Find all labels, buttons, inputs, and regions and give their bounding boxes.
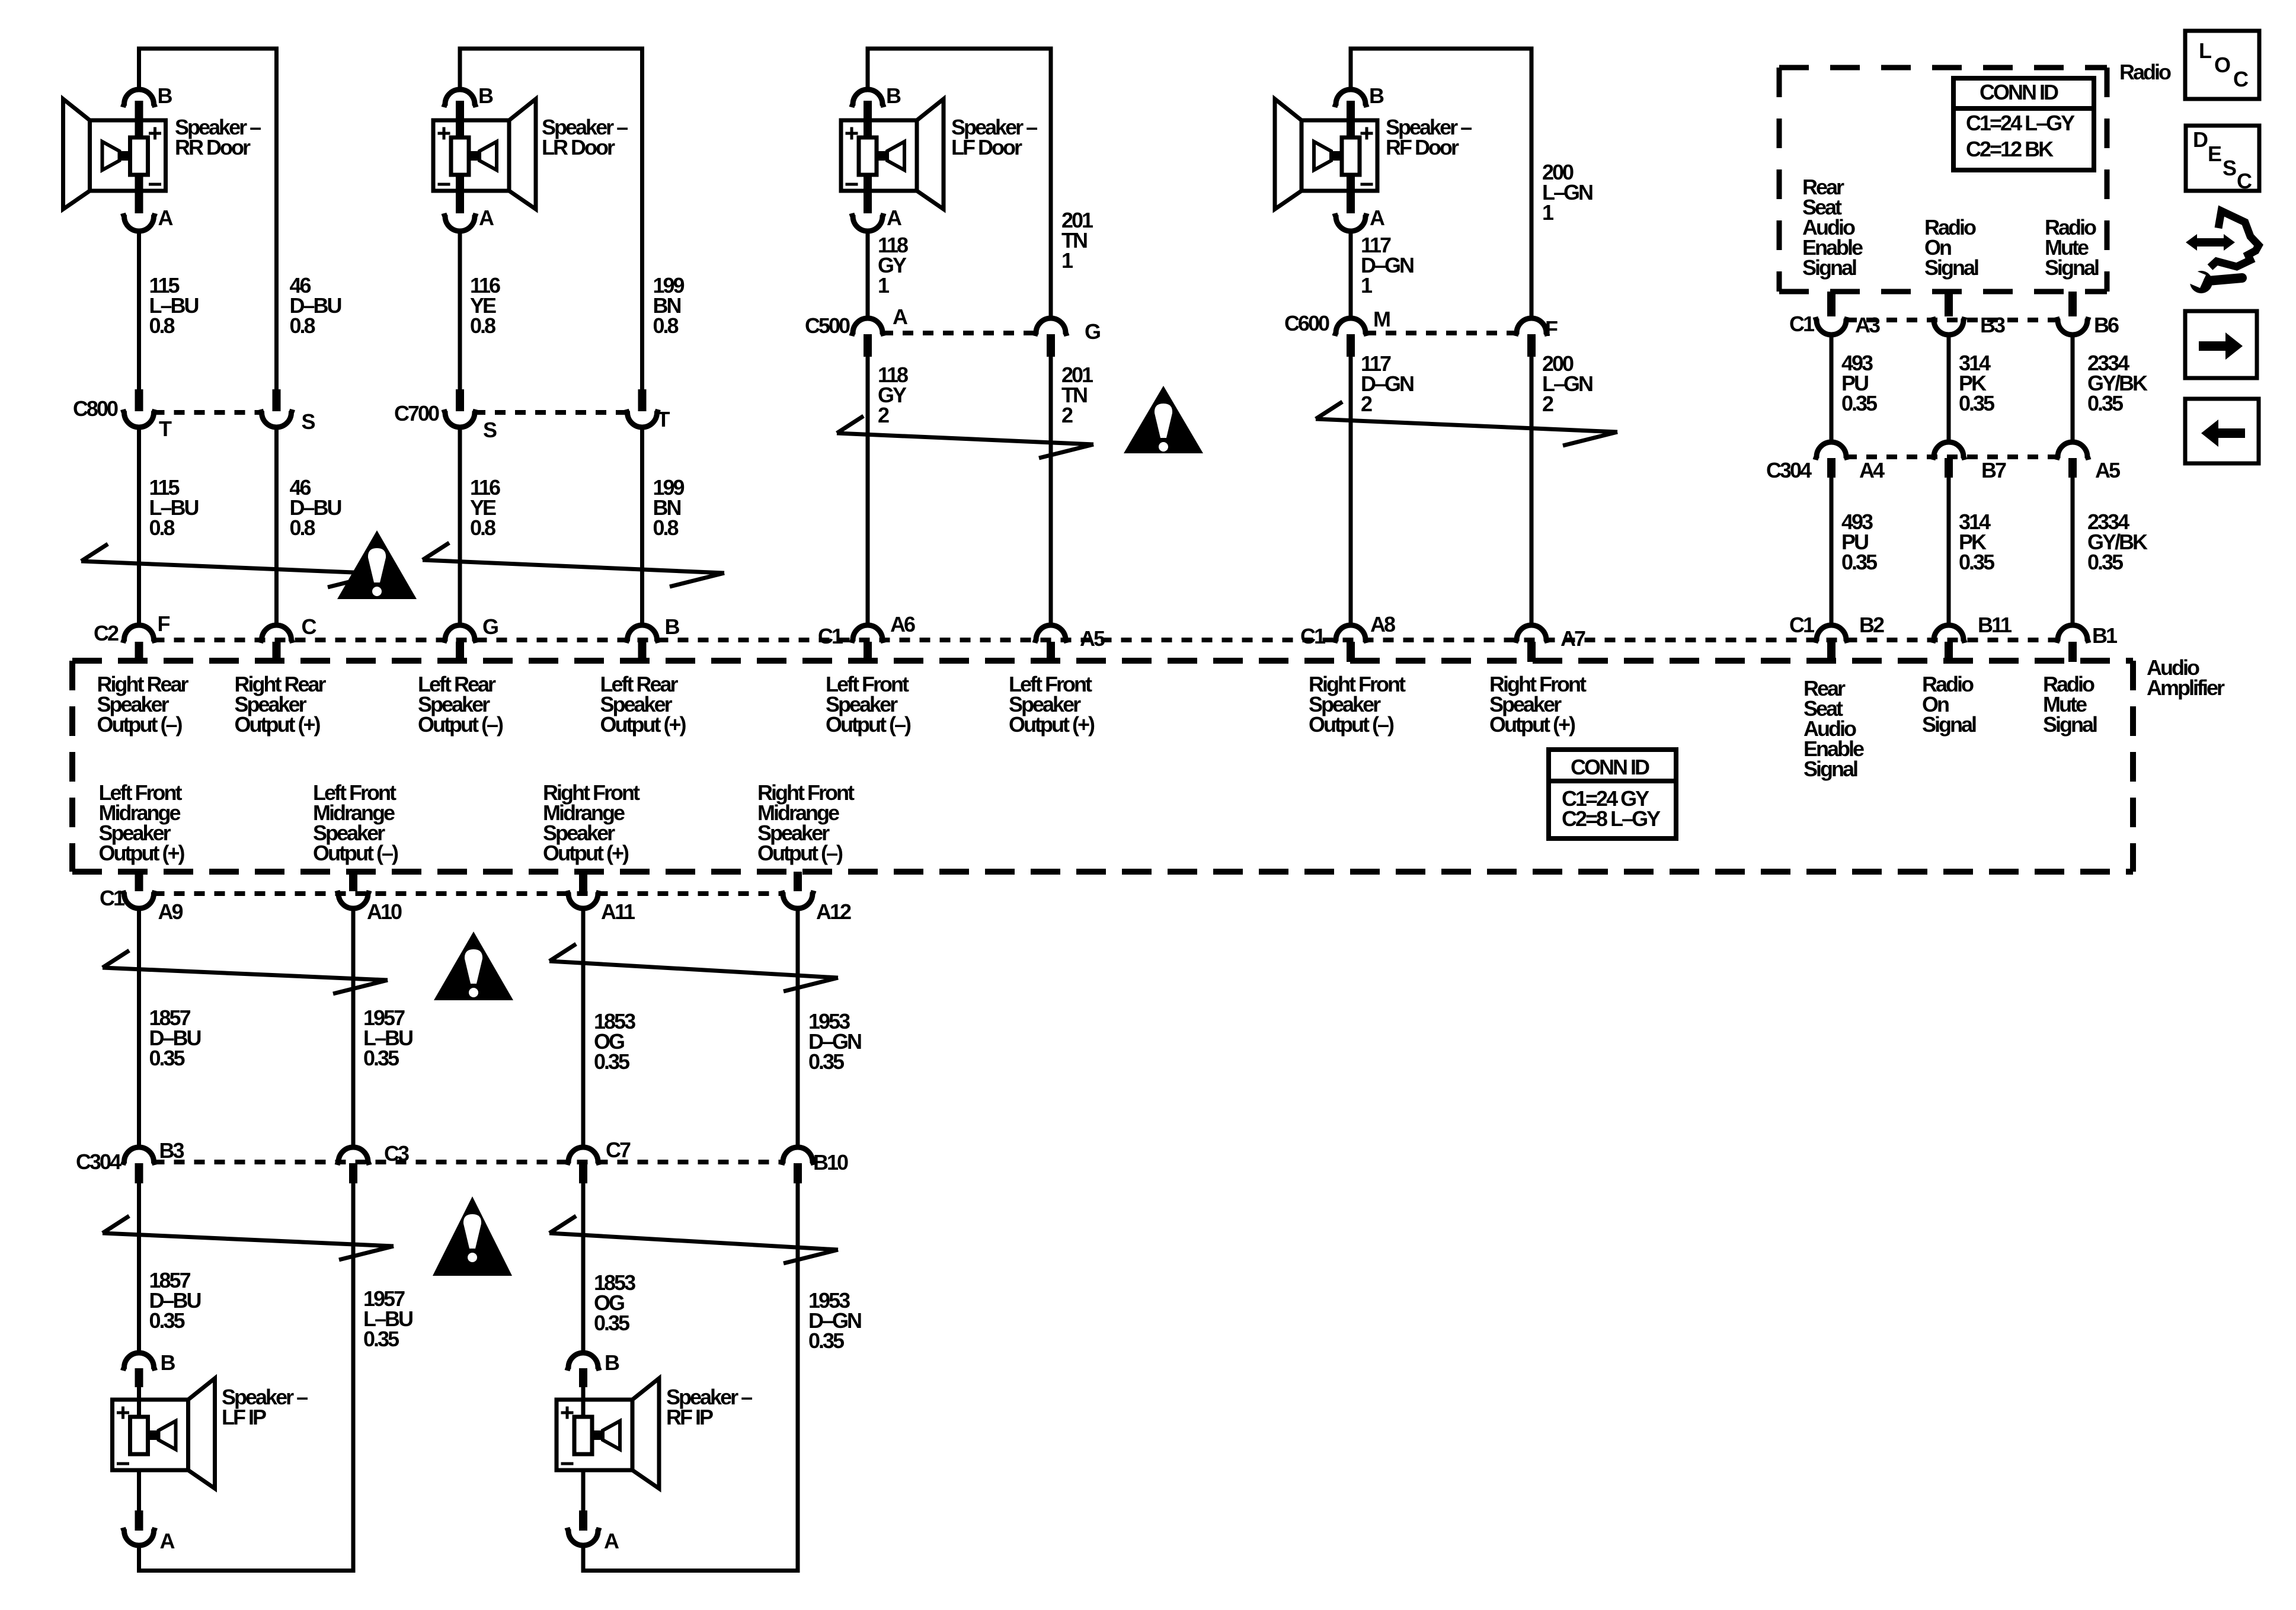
svg-text:C2=12 BK: C2=12 BK — [1966, 137, 2054, 161]
svg-text:C7: C7 — [606, 1138, 631, 1162]
svg-text:LF IP: LF IP — [222, 1405, 266, 1429]
svg-text:A8: A8 — [1370, 612, 1395, 636]
svg-text:C1: C1 — [1789, 312, 1815, 336]
svg-text:Output (–): Output (–) — [313, 841, 398, 865]
svg-text:A4: A4 — [1859, 458, 1885, 482]
svg-text:A: A — [479, 206, 494, 230]
svg-text:B3: B3 — [159, 1138, 184, 1163]
svg-text:A6: A6 — [890, 612, 915, 636]
svg-text:0.35: 0.35 — [2087, 391, 2124, 415]
svg-text:Output (+): Output (+) — [1489, 712, 1575, 737]
svg-text:O: O — [2214, 53, 2230, 77]
svg-text:0.35: 0.35 — [594, 1049, 630, 1074]
svg-text:C1: C1 — [1789, 613, 1815, 637]
svg-text:0.8: 0.8 — [290, 516, 315, 540]
svg-text:Output (+): Output (+) — [235, 712, 321, 737]
svg-text:B6: B6 — [2094, 313, 2119, 337]
svg-text:0.35: 0.35 — [808, 1049, 845, 1074]
svg-text:0.35: 0.35 — [363, 1327, 399, 1351]
svg-text:1: 1 — [1361, 273, 1373, 297]
svg-text:L: L — [2199, 39, 2211, 63]
svg-text:T: T — [159, 417, 172, 441]
svg-text:C1: C1 — [818, 624, 843, 648]
svg-text:0.35: 0.35 — [1841, 391, 1878, 415]
svg-text:A3: A3 — [1855, 313, 1880, 337]
svg-text:1: 1 — [1542, 200, 1554, 225]
svg-text:C800: C800 — [73, 396, 118, 421]
svg-text:Signal: Signal — [1802, 255, 1856, 280]
svg-text:Output (+): Output (+) — [1009, 712, 1095, 737]
svg-text:0.35: 0.35 — [363, 1046, 399, 1070]
svg-text:C600: C600 — [1284, 311, 1329, 335]
svg-text:A: A — [1370, 206, 1385, 230]
svg-text:C700: C700 — [394, 401, 439, 425]
svg-text:0.35: 0.35 — [1841, 550, 1878, 574]
svg-text:A11: A11 — [601, 900, 635, 924]
svg-text:C: C — [2233, 67, 2249, 91]
svg-text:A5: A5 — [2095, 458, 2121, 482]
svg-text:RF IP: RF IP — [666, 1405, 713, 1429]
svg-text:2: 2 — [1361, 392, 1372, 416]
svg-text:S: S — [483, 418, 497, 442]
svg-text:Signal: Signal — [1922, 712, 1976, 737]
svg-text:RF Door: RF Door — [1386, 135, 1459, 159]
svg-text:Radio: Radio — [2119, 60, 2171, 84]
svg-text:CONN ID: CONN ID — [1980, 80, 2058, 104]
svg-text:G: G — [482, 614, 498, 639]
svg-text:0.35: 0.35 — [1959, 391, 1995, 415]
svg-text:0.35: 0.35 — [2087, 550, 2124, 574]
svg-text:0.35: 0.35 — [594, 1311, 630, 1335]
svg-text:Signal: Signal — [1924, 255, 1978, 280]
svg-text:A: A — [893, 305, 908, 329]
svg-text:A7: A7 — [1560, 626, 1585, 651]
svg-text:B11: B11 — [1978, 613, 2012, 637]
svg-text:0.8: 0.8 — [470, 516, 495, 540]
svg-text:Output (–): Output (–) — [1309, 712, 1394, 737]
svg-text:B7: B7 — [1981, 458, 2006, 482]
svg-text:C3: C3 — [384, 1141, 409, 1166]
svg-text:Output (–): Output (–) — [826, 712, 911, 737]
svg-text:0.35: 0.35 — [1959, 550, 1995, 574]
svg-text:1: 1 — [1061, 248, 1073, 273]
svg-text:S: S — [2223, 156, 2236, 180]
svg-text:B10: B10 — [813, 1150, 848, 1174]
svg-text:C304: C304 — [1766, 458, 1812, 482]
svg-text:Output (–): Output (–) — [97, 712, 183, 737]
svg-text:A: A — [160, 1529, 175, 1553]
svg-text:0.35: 0.35 — [808, 1329, 845, 1353]
svg-text:0.8: 0.8 — [653, 313, 679, 338]
svg-text:G: G — [1085, 319, 1100, 344]
svg-text:Output (–): Output (–) — [418, 712, 503, 737]
svg-text:A9: A9 — [158, 900, 183, 924]
svg-text:B1: B1 — [2092, 623, 2118, 648]
svg-text:A5: A5 — [1080, 626, 1105, 651]
svg-text:0.8: 0.8 — [470, 313, 495, 338]
svg-text:B: B — [161, 1350, 175, 1375]
svg-text:Output (+): Output (+) — [600, 712, 686, 737]
svg-text:LF Door: LF Door — [951, 135, 1022, 159]
svg-text:C500: C500 — [805, 313, 850, 338]
svg-text:C: C — [2237, 169, 2252, 193]
svg-text:Output (–): Output (–) — [757, 841, 843, 865]
svg-text:T: T — [657, 407, 670, 431]
svg-text:0.8: 0.8 — [149, 516, 175, 540]
svg-text:A10: A10 — [367, 900, 402, 924]
svg-text:C1: C1 — [1300, 624, 1326, 648]
svg-text:B: B — [665, 614, 680, 639]
svg-text:0.8: 0.8 — [653, 516, 679, 540]
svg-text:C2: C2 — [94, 621, 119, 645]
svg-text:A: A — [604, 1529, 619, 1553]
svg-text:F: F — [1545, 316, 1558, 341]
svg-text:B: B — [1369, 84, 1384, 108]
svg-text:C304: C304 — [76, 1150, 121, 1174]
svg-text:0.35: 0.35 — [149, 1308, 186, 1333]
svg-text:C2=8 L–GY: C2=8 L–GY — [1562, 806, 1661, 831]
svg-text:1: 1 — [878, 273, 890, 297]
svg-text:2: 2 — [1061, 403, 1073, 427]
svg-text:2: 2 — [1542, 392, 1553, 416]
svg-text:A12: A12 — [816, 900, 851, 924]
svg-text:C1: C1 — [100, 886, 125, 910]
svg-text:E: E — [2208, 142, 2221, 166]
svg-text:CONN ID: CONN ID — [1571, 755, 1649, 779]
svg-text:Output (+): Output (+) — [99, 841, 185, 865]
svg-text:2: 2 — [878, 403, 889, 427]
svg-text:RR Door: RR Door — [175, 135, 251, 159]
svg-text:B: B — [605, 1350, 619, 1375]
svg-text:Signal: Signal — [2043, 712, 2097, 737]
svg-text:M: M — [1373, 307, 1390, 331]
svg-text:B: B — [158, 84, 172, 108]
svg-text:B: B — [886, 84, 901, 108]
svg-text:F: F — [158, 612, 170, 636]
svg-text:B3: B3 — [1980, 313, 2005, 337]
svg-text:A: A — [158, 206, 174, 230]
svg-text:B2: B2 — [1859, 613, 1884, 637]
svg-text:D: D — [2193, 127, 2208, 152]
svg-text:Signal: Signal — [2045, 255, 2099, 280]
svg-text:S: S — [302, 409, 315, 434]
svg-text:Signal: Signal — [1803, 757, 1857, 781]
svg-text:B: B — [478, 84, 493, 108]
svg-text:0.35: 0.35 — [149, 1046, 186, 1070]
svg-text:0.8: 0.8 — [149, 313, 175, 338]
svg-text:LR Door: LR Door — [542, 135, 615, 159]
svg-text:0.8: 0.8 — [290, 313, 315, 338]
svg-text:C1=24 L–GY: C1=24 L–GY — [1966, 111, 2075, 135]
svg-text:C: C — [302, 614, 317, 639]
svg-text:Amplifier: Amplifier — [2147, 676, 2225, 700]
svg-text:Output (+): Output (+) — [543, 841, 629, 865]
svg-text:A: A — [887, 206, 902, 230]
